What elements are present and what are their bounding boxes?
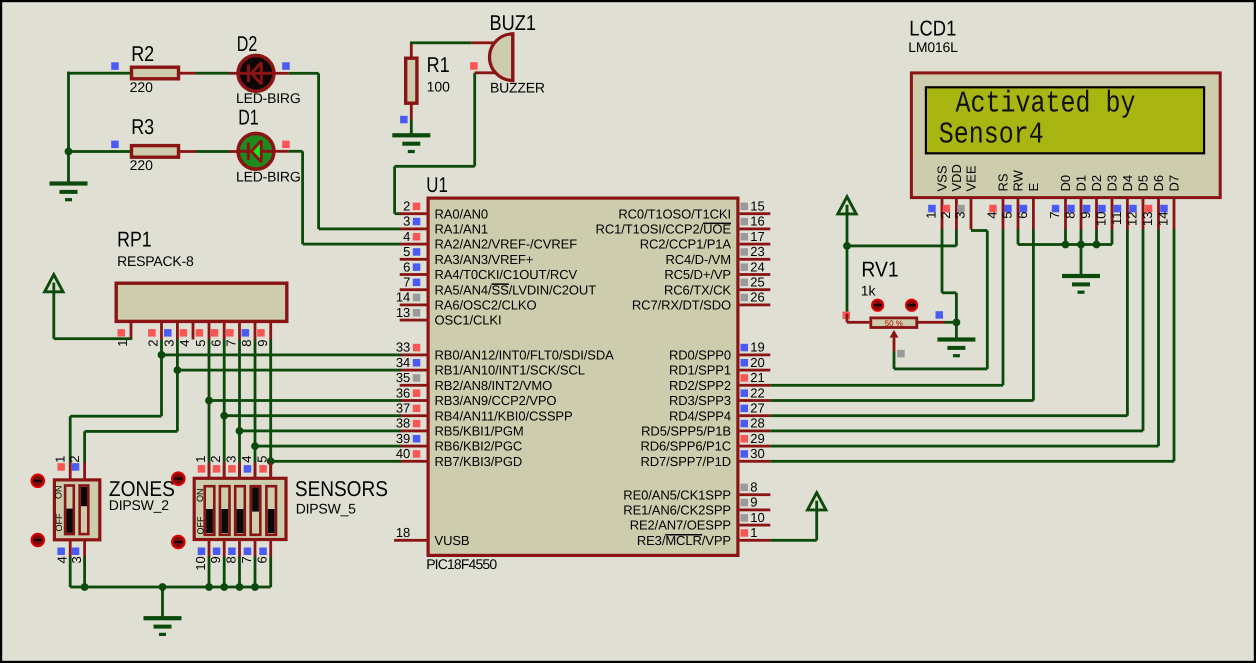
wire RW down to data rail: [1017, 230, 1020, 245]
svg-text:RC2/CCP1/P1A: RC2/CCP1/P1A: [640, 237, 732, 252]
svg-text:RB4/AN11/KBI0/CSSPP: RB4/AN11/KBI0/CSSPP: [435, 408, 573, 423]
wire RB6 row to SENSORS sw4 column: [255, 445, 401, 448]
U1 pin 17 (RC2) right: [640, 229, 771, 252]
svg-text:18: 18: [396, 525, 410, 540]
wire RB3 row to SENSORS sw1 column: [209, 399, 401, 402]
wire RD4 to LCD D4: [770, 230, 1129, 418]
resistor R3 body: [132, 146, 179, 158]
svg-text:13: 13: [1140, 212, 1155, 226]
svg-text:1: 1: [750, 525, 757, 540]
potentiometer RV1 left lead: [846, 314, 870, 324]
svg-text:RV1: RV1: [861, 257, 898, 281]
svg-text:1: 1: [924, 212, 939, 219]
screw ZONES bottom-left: [32, 534, 45, 547]
svg-text:37: 37: [396, 401, 410, 416]
U1 pin 40 (RB7) left: [396, 446, 522, 469]
ground GND-B (below R1): [392, 133, 430, 153]
U1 pin 28 (RD5) right: [641, 416, 770, 439]
value 100 (R1): [427, 79, 451, 95]
SENSORS ON label: [195, 489, 205, 503]
svg-text:VDD: VDD: [949, 164, 964, 191]
wire D3 drop: [1111, 230, 1114, 245]
wire column RP9-SENSORS5: [269, 340, 272, 478]
svg-text:3: 3: [403, 214, 410, 229]
svg-text:5: 5: [193, 340, 208, 347]
svg-text:VSS: VSS: [935, 165, 950, 191]
svg-text:D4: D4: [1120, 175, 1135, 192]
node ZONES3/bus: [81, 583, 89, 591]
LED D2 symbol: [239, 63, 273, 84]
svg-text:22: 22: [750, 385, 764, 400]
svg-text:29: 29: [750, 431, 764, 446]
LED D1 symbol: [239, 141, 273, 162]
pin square RV1.3 (blue): [936, 311, 944, 319]
svg-text:9: 9: [750, 495, 757, 510]
svg-text:20: 20: [750, 355, 764, 370]
label SENSORS: [295, 477, 388, 501]
node VSS/RV1/ground: [953, 319, 961, 327]
node RB7/col5: [267, 457, 275, 465]
U1 pin 39 (RB6) left: [396, 431, 522, 454]
svg-text:30: 30: [750, 446, 764, 461]
svg-text:8: 8: [750, 480, 757, 495]
pin square RV1.1 (red): [843, 312, 851, 320]
svg-text:33: 33: [396, 340, 410, 355]
RP1 pin 5: [193, 322, 210, 347]
wire RD6 to LCD D6: [770, 230, 1160, 448]
svg-text:RESPACK-8: RESPACK-8: [117, 253, 194, 269]
RP1 pin 4: [177, 322, 194, 347]
wire ground stem: [161, 587, 164, 617]
value 220 (R3): [130, 157, 154, 173]
svg-text:40: 40: [396, 446, 410, 461]
label BUZ1: [490, 11, 537, 35]
svg-text:RD1/SPP1: RD1/SPP1: [669, 363, 731, 378]
svg-text:9: 9: [208, 556, 223, 563]
svg-text:E: E: [1026, 183, 1041, 192]
SENSORS pin 2 stub: [208, 456, 226, 479]
svg-text:D6: D6: [1151, 175, 1166, 192]
LCD LCD1 body: [911, 73, 1220, 198]
RP1 pin 2: [146, 322, 163, 347]
svg-text:3: 3: [223, 456, 238, 463]
LCD1 pin 14 (D7): [1156, 175, 1182, 230]
svg-text:3: 3: [953, 212, 968, 219]
svg-text:7: 7: [403, 275, 410, 290]
ground GND-A (below R2/R3 rail): [50, 181, 88, 201]
SENSORS pin 7 stub: [239, 540, 257, 564]
svg-text:9: 9: [255, 340, 270, 347]
SENSORS pin 6 stub: [255, 540, 272, 564]
svg-text:4: 4: [177, 340, 192, 347]
ZONES OFF label: [54, 513, 64, 531]
wire SENSORS pin 9 to bus: [223, 557, 226, 588]
potentiometer RV1 body: [871, 318, 917, 328]
svg-text:RS: RS: [996, 173, 1011, 191]
wire D0 drop: [1064, 230, 1067, 245]
U1 pin 10 (RE2) right: [630, 510, 771, 533]
svg-text:DIPSW_2: DIPSW_2: [109, 497, 169, 513]
U1 pin 37 (RB4) left: [396, 401, 573, 424]
wire column RP8-SENSORS4: [254, 340, 257, 478]
svg-text:5: 5: [255, 456, 270, 463]
wire R2 left: [67, 72, 130, 75]
pin square BUZ1.2 (red): [470, 62, 478, 69]
wire R3 to D1: [196, 150, 230, 153]
svg-text:RC0/T1OSO/T1CKI: RC0/T1OSO/T1CKI: [618, 206, 731, 221]
label D1: [238, 105, 259, 129]
ZONES switch slot 1 (OFF): [65, 486, 74, 535]
wire ZONES pin4 to bus: [69, 557, 72, 588]
svg-text:15: 15: [750, 199, 764, 214]
LCD1 pin 10 (D3): [1094, 175, 1120, 230]
label R2: [131, 42, 154, 66]
node junction R3/ground rail: [65, 148, 73, 156]
svg-text:220: 220: [130, 157, 154, 173]
buzzer BUZ1 body: [490, 32, 515, 82]
svg-text:D7: D7: [1167, 175, 1182, 192]
U1 pin 24 (RC5) right: [664, 259, 770, 282]
svg-text:100: 100: [427, 79, 451, 95]
power VCC arrow (LCD): [838, 197, 856, 215]
diode D2 lead right: [272, 72, 289, 75]
U1 pin 18 (VUSB): [394, 525, 469, 548]
wire RB4 row to SENSORS sw2 column: [224, 414, 401, 417]
wire ZONES pin3 to bus: [83, 557, 86, 588]
SENSORS switch slot 5 (OFF): [266, 486, 276, 535]
svg-text:DIPSW_5: DIPSW_5: [296, 501, 356, 517]
RP1 pin 6: [208, 322, 225, 347]
U1 pin 3 (RA1) left: [400, 214, 488, 237]
wire RP1 pin2 column down: [160, 340, 163, 417]
svg-text:RP1: RP1: [117, 228, 152, 252]
U1 pin 5 (RA3) left: [400, 244, 534, 267]
U1 pin 2 (RA0) left: [400, 199, 488, 222]
LCD1 pin 12 (D5): [1125, 175, 1151, 230]
wire SENSORS pin 6 to bus: [269, 557, 272, 588]
wire SENSORS pin 8 to bus: [238, 557, 241, 588]
wire VEE jog: [893, 229, 989, 370]
wire ground bus: [70, 586, 271, 589]
svg-text:RD2/SPP2: RD2/SPP2: [669, 378, 731, 393]
value LED-BIRG (D2): [236, 90, 301, 106]
U1 pin 21 (RD2) right: [669, 370, 770, 393]
U1 pin 34 (RB1) left: [396, 355, 585, 378]
svg-text:RA5/AN4/SS/LVDIN/C2OUT: RA5/AN4/SS/LVDIN/C2OUT: [435, 282, 597, 297]
LCD1 pin 7 (D0): [1047, 175, 1073, 230]
node VCC/VDD/RV1: [843, 242, 851, 250]
value 1k (RV1): [861, 282, 877, 298]
resistor pack RP1 body: [116, 283, 287, 321]
svg-text:1k: 1k: [861, 282, 877, 298]
ground GND-E (bottom): [144, 616, 182, 636]
SENSORS pin 4 stub: [239, 456, 257, 479]
svg-text:Sensor4: Sensor4: [939, 118, 1044, 153]
SENSORS pin 3 stub: [223, 456, 241, 479]
svg-text:R2: R2: [131, 42, 154, 66]
value PIC18F4550: [426, 556, 497, 572]
LCD1 pin 5 (RW): [1000, 169, 1026, 229]
wire RP1 pin3 column down: [176, 340, 179, 432]
svg-text:6: 6: [255, 556, 270, 563]
LCD text line 2: [939, 118, 1044, 153]
U1 pin 35 (RB2) left: [396, 370, 552, 393]
svg-text:35: 35: [396, 370, 410, 385]
label R3: [131, 115, 154, 139]
resistor R3 right lead: [180, 150, 196, 153]
RP1 pin 1: [115, 322, 132, 347]
LCD1 pin 3 (VEE): [953, 165, 979, 229]
wire SENSORS pin 10 to bus: [208, 557, 211, 588]
node D1/rail: [1077, 241, 1085, 249]
svg-text:LCD1: LCD1: [909, 16, 956, 40]
diode D2 lead left: [230, 72, 241, 75]
svg-text:16: 16: [750, 214, 764, 229]
SENSORS pin 8 stub: [223, 540, 241, 564]
wire column RP7-SENSORS3: [238, 340, 241, 478]
svg-text:4: 4: [403, 229, 410, 244]
U1 pin 30 (RD7) right: [640, 446, 770, 469]
svg-text:VEE: VEE: [964, 165, 979, 191]
wire left rail (R2/R3 common): [67, 72, 70, 182]
U1 pin 13 (OSC1) left: [396, 305, 502, 328]
svg-text:6: 6: [1015, 212, 1030, 219]
value RESPACK-8: [117, 253, 194, 269]
U1 pin 8 (RE0) right: [623, 480, 770, 503]
svg-text:RD6/SPP6/P1C: RD6/SPP6/P1C: [640, 439, 731, 454]
LCD1 pin 6 (E): [1015, 183, 1041, 230]
U1 pin 7 (RA5) left: [400, 275, 597, 298]
wire D2 to RA1 corner: [289, 72, 401, 230]
diode D1 lead right: [272, 150, 289, 153]
svg-text:Activated by: Activated by: [956, 87, 1136, 122]
LCD text line 1: [956, 87, 1136, 122]
U1 pin 33 (RB0) left: [396, 340, 614, 363]
svg-text:27: 27: [750, 401, 764, 416]
node SENSORS/bus: [220, 583, 228, 591]
svg-text:SENSORS: SENSORS: [295, 477, 388, 501]
pin square D1.K (red): [282, 141, 290, 149]
wire VDD rail: [847, 230, 958, 248]
value DIPSW_5: [296, 501, 356, 517]
pin square R1.2 (blue): [400, 116, 408, 124]
overline SS (RA5 pin7): [492, 283, 509, 285]
wire VCC down to RV1: [846, 246, 849, 314]
node bus/ground stem: [159, 583, 167, 591]
SENSORS pin 1 stub: [193, 456, 211, 479]
RP1 pin 3: [162, 322, 179, 347]
RP1 pin 7: [224, 322, 241, 347]
U1 pin 27 (RD4) right: [669, 401, 770, 424]
svg-text:21: 21: [750, 370, 764, 385]
node RB6/col4: [251, 442, 259, 450]
svg-text:RB2/AN8/INT2/VMO: RB2/AN8/INT2/VMO: [435, 378, 553, 393]
wire RB1 row to RP1 pin3 column: [177, 369, 401, 372]
U1 pin 1 (RE3) right: [637, 525, 770, 548]
RV1 50% text: [885, 319, 903, 328]
node D0/rail: [1062, 241, 1070, 249]
svg-text:5: 5: [1000, 212, 1015, 219]
SENSORS OFF label: [195, 516, 205, 534]
svg-text:RD3/SPP3: RD3/SPP3: [669, 393, 731, 408]
svg-text:14: 14: [396, 290, 410, 305]
node SENSORS/bus: [236, 583, 244, 591]
svg-text:R1: R1: [427, 53, 450, 77]
node RB4/col2: [220, 412, 228, 420]
svg-text:7: 7: [224, 340, 239, 347]
wire R3 left: [69, 150, 131, 153]
LCD1 pin 13 (D6): [1140, 175, 1166, 230]
ground GND-D (RV1): [937, 337, 975, 357]
svg-text:8: 8: [223, 556, 238, 563]
wire RB5 row to SENSORS sw3 column: [240, 430, 402, 433]
node SENSORS/bus: [205, 583, 213, 591]
svg-text:RD4/SPP4: RD4/SPP4: [669, 408, 731, 423]
U1 pin 9 (RE1) right: [623, 495, 770, 518]
svg-text:4: 4: [985, 212, 1000, 219]
wire R1 to ground: [410, 120, 413, 135]
svg-text:25: 25: [750, 275, 764, 290]
svg-text:RC7/RX/DT/SDO: RC7/RX/DT/SDO: [632, 298, 731, 313]
svg-text:6: 6: [403, 259, 410, 274]
label RV1: [861, 257, 898, 281]
wire D2 drop: [1095, 230, 1098, 245]
U1 pin 23 (RC4) right: [665, 244, 770, 267]
value DIPSW_2: [109, 497, 169, 513]
svg-text:11: 11: [1109, 212, 1124, 226]
wire VSS down: [941, 230, 958, 323]
svg-text:VUSB: VUSB: [435, 533, 470, 548]
RV1 wiper arrow: [890, 330, 899, 352]
wire D1 to RA2 corner: [289, 150, 401, 246]
RV1 knob left: [872, 300, 883, 311]
resistor R1 body: [406, 58, 417, 103]
svg-text:RB0/AN12/INT0/FLT0/SDI/SDA: RB0/AN12/INT0/FLT0/SDI/SDA: [435, 348, 615, 363]
IC U1 body (PIC18F4550): [428, 198, 738, 555]
svg-text:2: 2: [403, 199, 410, 214]
svg-text:2: 2: [938, 212, 953, 219]
ground GND-C (LCD data): [1062, 274, 1100, 294]
svg-text:8: 8: [1063, 212, 1078, 219]
svg-text:13: 13: [396, 305, 410, 320]
node SENSORS/bus: [251, 583, 259, 591]
svg-text:17: 17: [750, 229, 764, 244]
svg-text:14: 14: [1156, 212, 1171, 226]
svg-text:LM016L: LM016L: [908, 39, 958, 55]
svg-text:9: 9: [1078, 212, 1093, 219]
label RP1: [117, 228, 152, 252]
svg-text:OSC1/CLKI: OSC1/CLKI: [435, 313, 502, 328]
svg-text:RA6/OSC2/CLKO: RA6/OSC2/CLKO: [435, 298, 537, 313]
label LCD1: [909, 16, 956, 40]
svg-text:RB5/KBI1/PGM: RB5/KBI1/PGM: [435, 424, 524, 439]
svg-text:RA4/T0CKI/C1OUT/RCV: RA4/T0CKI/C1OUT/RCV: [435, 267, 578, 282]
svg-text:RB3/AN9/CCP2/VPO: RB3/AN9/CCP2/VPO: [435, 393, 557, 408]
pin square D2.K (blue): [282, 62, 290, 70]
ZONES pin 2 stub: [67, 456, 86, 480]
resistor R2 right lead: [180, 72, 196, 75]
wire VCC stem to VDD rail: [846, 206, 849, 246]
label D2: [237, 32, 257, 56]
wire node to ground D: [955, 322, 958, 338]
svg-text:1: 1: [53, 456, 68, 463]
value LM016L: [908, 39, 958, 55]
node RB0/RP2: [158, 351, 166, 359]
U1 pin 19 (RD0) right: [669, 340, 770, 363]
node D2/rail: [1093, 241, 1101, 249]
ZONES switch slot 2 (ON): [80, 486, 89, 535]
svg-text:10: 10: [193, 556, 208, 570]
svg-text:RA1/AN1: RA1/AN1: [435, 222, 489, 237]
SENSORS pin 5 stub: [255, 456, 272, 479]
svg-text:6: 6: [208, 340, 223, 347]
value 220 (R2): [130, 79, 154, 95]
label U1: [426, 173, 448, 197]
ZONES pin 3 stub: [69, 540, 86, 564]
LED D2 body: [238, 55, 274, 91]
wire data ground rail: [1018, 243, 1112, 246]
DIP switch ZONES body: [54, 480, 99, 540]
svg-text:D2: D2: [1089, 175, 1104, 192]
svg-text:39: 39: [396, 431, 410, 446]
RP1 pin 9: [255, 322, 272, 347]
svg-text:7: 7: [239, 556, 254, 563]
wire RE3 to VCC: [770, 511, 818, 542]
svg-text:D0: D0: [1058, 175, 1073, 192]
pin square R2.1 (blue): [111, 62, 119, 70]
svg-text:LED-BIRG: LED-BIRG: [236, 90, 301, 106]
U1 pin 6 (RA4) left: [400, 259, 578, 282]
wire RD5 to LCD D5: [770, 230, 1144, 433]
svg-text:D2: D2: [237, 32, 257, 56]
svg-text:26: 26: [750, 290, 764, 305]
svg-text:12: 12: [1125, 212, 1140, 226]
node RB5/col3: [236, 427, 244, 435]
svg-text:19: 19: [750, 340, 764, 355]
U1 pin 22 (RD3) right: [669, 385, 770, 408]
svg-text:BUZZER: BUZZER: [490, 79, 545, 95]
svg-text:RD5/SPP5/P1B: RD5/SPP5/P1B: [641, 424, 731, 439]
buzzer BUZ1 bottom lead: [475, 71, 496, 74]
ZONES pin 1 stub: [53, 456, 72, 480]
svg-text:RD0/SPP0: RD0/SPP0: [669, 348, 731, 363]
value LED-BIRG (D1): [236, 168, 301, 184]
svg-text:RC6/TX/CK: RC6/TX/CK: [664, 282, 731, 297]
svg-text:RB7/KBI3/PGD: RB7/KBI3/PGD: [435, 454, 523, 469]
DIP switch SENSORS body: [194, 478, 286, 539]
wire column RP5-SENSORS1: [208, 340, 211, 478]
svg-text:2: 2: [208, 456, 223, 463]
svg-text:7: 7: [1047, 212, 1062, 219]
U1 pin 25 (RC6) right: [664, 275, 770, 298]
SENSORS switch slot 2 (OFF): [220, 486, 230, 535]
wire RD7 to LCD D7: [770, 230, 1175, 463]
LCD1 pin 8 (D1): [1063, 175, 1089, 230]
wire column RP6-SENSORS2: [223, 340, 226, 478]
overline MCLR (RE3 pin1): [665, 534, 702, 536]
U1 pin 4 (RA2) left: [400, 229, 578, 252]
svg-text:38: 38: [396, 416, 410, 431]
svg-text:24: 24: [750, 259, 764, 274]
svg-text:RC5/D+/VP: RC5/D+/VP: [664, 267, 731, 282]
power VCC arrow (RE3): [808, 493, 826, 511]
U1 pin 14 (RA6) left: [396, 290, 537, 313]
svg-text:3: 3: [162, 340, 177, 347]
wire RV1 right to node: [944, 321, 956, 324]
svg-text:1: 1: [193, 456, 208, 463]
wire RB0 row to RP1 pin2 column: [162, 354, 402, 357]
svg-text:ON: ON: [54, 486, 64, 500]
